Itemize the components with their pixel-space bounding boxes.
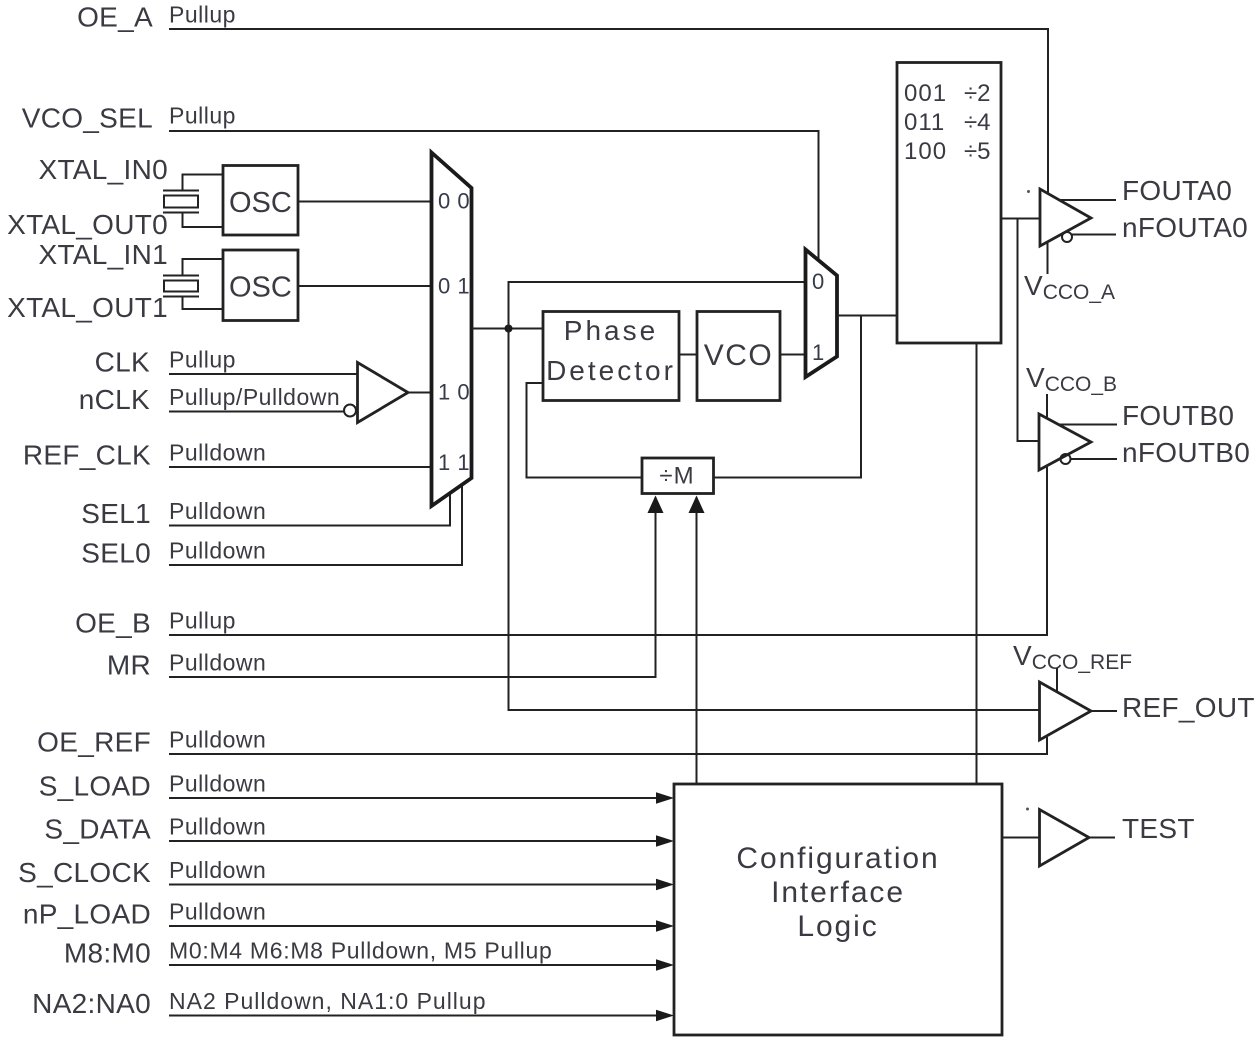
svg-text:OE_A: OE_A	[77, 2, 153, 33]
svg-text:0: 0	[812, 269, 825, 294]
svg-text:XTAL_IN1: XTAL_IN1	[39, 239, 169, 270]
svg-text:Interface: Interface	[771, 876, 905, 909]
wire feedback tap to divider M	[714, 316, 862, 478]
svg-text:XTAL_OUT1: XTAL_OUT1	[7, 292, 168, 323]
wire VCO_SEL to mux select	[169, 131, 819, 261]
svg-text:SEL1: SEL1	[81, 498, 151, 529]
svg-text:Pullup: Pullup	[169, 608, 236, 634]
svg-text:÷5: ÷5	[964, 138, 991, 165]
output divider bank (001 divide2, 011 divide4, 100 divide5)	[897, 63, 1001, 344]
output driver FOUTB	[1039, 414, 1091, 470]
svg-text:Pulldown: Pulldown	[169, 771, 266, 797]
wire OSC1 output to mux input 01	[298, 285, 432, 287]
svg-text:1: 1	[812, 340, 825, 365]
svg-text:VCO_SEL: VCO_SEL	[22, 103, 153, 134]
svg-text:Pullup: Pullup	[169, 103, 236, 129]
svg-text:Phase: Phase	[564, 315, 658, 346]
wire branch to FOUTB driver	[1018, 219, 1040, 442]
arrowhead M control into divider M	[689, 496, 705, 514]
output driver FOUTA	[1040, 189, 1091, 246]
wire NA2:NA0 to configuration logic	[169, 1015, 660, 1017]
svg-text:FOUTB0: FOUTB0	[1122, 400, 1234, 431]
svg-text:REF_CLK: REF_CLK	[23, 440, 151, 471]
wire VCO to mux M2 input 1	[780, 354, 806, 356]
inverting bubble on nCLK input	[344, 405, 356, 417]
svg-text:XTAL_IN0: XTAL_IN0	[39, 154, 169, 185]
wire bypass to mux M2 input 0	[509, 282, 806, 329]
svg-text:NA2:NA0: NA2:NA0	[32, 988, 151, 1019]
wire MR to divider M	[169, 497, 656, 677]
svg-text:Pulldown: Pulldown	[169, 440, 266, 466]
wire nCLK to input buffer bubble	[169, 411, 345, 413]
VCO bypass mux M2	[806, 250, 838, 378]
wire SEL1 to mux select	[169, 494, 450, 526]
inverting bubble nFOUTB0	[1061, 454, 1071, 464]
svg-text:OE_REF: OE_REF	[37, 727, 151, 758]
oscillator OSC1	[223, 250, 298, 321]
wire nFOUTA0 output	[1072, 234, 1117, 236]
wire OSC0 output to mux input 00	[298, 201, 432, 203]
inverting bubble nFOUTA0	[1062, 232, 1072, 242]
wire buffer output to mux input 10	[408, 392, 432, 394]
crystal Y1	[163, 259, 223, 309]
svg-text:001: 001	[904, 80, 947, 107]
svg-text:÷2: ÷2	[964, 80, 991, 107]
svg-text:Configuration: Configuration	[736, 842, 939, 875]
wire divider to configuration logic	[976, 343, 978, 784]
wire divider output to FOUTA driver	[1001, 218, 1040, 220]
wire FOUTA0 output	[1059, 199, 1116, 201]
wire OE_A to FOUTA driver enable	[169, 29, 1048, 193]
svg-text:Detector: Detector	[546, 355, 676, 386]
svg-text:M8:M0: M8:M0	[64, 938, 151, 969]
svg-text:OSC: OSC	[229, 272, 292, 304]
wire reference to REF_OUT driver	[509, 329, 1040, 711]
svg-text:÷M: ÷M	[659, 463, 694, 490]
wire nP_LOAD to configuration logic	[169, 925, 660, 927]
wire FOUTB0 output	[1058, 424, 1117, 426]
svg-text:S_LOAD: S_LOAD	[39, 771, 151, 802]
output driver REF_OUT	[1040, 682, 1092, 740]
wire VCCO_B to FOUTB driver	[1046, 394, 1048, 417]
svg-text:1 1: 1 1	[438, 450, 470, 475]
wire VCCO_REF to REF_OUT driver	[1056, 668, 1058, 693]
svg-text:Pullup: Pullup	[169, 2, 236, 28]
svg-text:REF_OUT: REF_OUT	[1122, 692, 1255, 723]
wire mux M1 output to phase detector	[472, 328, 544, 330]
oscillator OSC0	[223, 166, 298, 236]
svg-text:nCLK: nCLK	[79, 384, 150, 415]
svg-text:XTAL_OUT0: XTAL_OUT0	[7, 209, 168, 240]
phase detector U2	[543, 312, 679, 401]
wire configuration logic to divider M control	[696, 497, 698, 784]
crystal Y0	[163, 175, 223, 228]
wire FOUTA driver to VCCO_A	[1047, 243, 1049, 274]
wire phase detector to VCO	[679, 354, 697, 356]
svg-text:MR: MR	[107, 650, 151, 681]
feedback divider M	[642, 458, 714, 494]
configuration interface logic U4	[674, 784, 1002, 1035]
svg-text:VCO: VCO	[704, 339, 774, 372]
arrowhead MR into divider M	[648, 496, 664, 514]
svg-text:Pulldown: Pulldown	[169, 814, 266, 840]
output driver TEST	[1040, 810, 1090, 867]
wire TEST output	[1089, 837, 1115, 839]
svg-text:Pullup/Pulldown: Pullup/Pulldown	[169, 384, 340, 410]
svg-text:nFOUTB0: nFOUTB0	[1122, 437, 1250, 468]
speck artifact near FOUTA driver	[1027, 190, 1030, 193]
wire configuration logic to TEST driver	[1002, 837, 1040, 839]
wire OE_B to FOUTB driver enable	[169, 467, 1047, 635]
svg-text:0 1: 0 1	[438, 274, 470, 299]
svg-text:÷4: ÷4	[964, 109, 991, 136]
VCO U3	[697, 312, 780, 401]
svg-text:TEST: TEST	[1122, 813, 1195, 844]
svg-text:SEL0: SEL0	[81, 538, 151, 569]
wire OE_REF to REF_OUT driver enable	[169, 737, 1047, 754]
svg-text:Pulldown: Pulldown	[169, 538, 266, 564]
wire S_DATA to configuration logic	[169, 840, 660, 842]
svg-text:Logic: Logic	[797, 910, 878, 943]
wire M8:M0 to configuration logic	[169, 964, 660, 966]
svg-text:1 0: 1 0	[438, 380, 470, 405]
wire mux M2 output to output divider	[837, 315, 897, 317]
svg-text:FOUTA0: FOUTA0	[1122, 175, 1232, 206]
svg-text:nFOUTA0: nFOUTA0	[1122, 212, 1248, 243]
svg-text:Pulldown: Pulldown	[169, 857, 266, 883]
wire REF_OUT output	[1089, 710, 1117, 712]
wire S_CLOCK to configuration logic	[169, 884, 660, 886]
svg-text:nP_LOAD: nP_LOAD	[23, 899, 151, 930]
svg-text:M0:M4 M6:M8 Pulldown, M5 Pullu: M0:M4 M6:M8 Pulldown, M5 Pullup	[169, 938, 552, 964]
svg-text:100: 100	[904, 138, 947, 165]
svg-text:NA2 Pulldown, NA1:0 Pullup: NA2 Pulldown, NA1:0 Pullup	[169, 988, 487, 1014]
input mux M1 (4:1 clock select)	[432, 153, 472, 507]
svg-text:OSC: OSC	[229, 187, 292, 219]
wire CLK to input buffer	[169, 373, 358, 375]
svg-text:011: 011	[904, 109, 945, 136]
svg-text:S_CLOCK: S_CLOCK	[18, 857, 151, 888]
speck artifact near TEST driver	[1026, 808, 1029, 811]
svg-text:Pullup: Pullup	[169, 347, 236, 373]
wire divider M output to phase detector feedback	[527, 383, 643, 478]
junction node reference clock	[505, 325, 513, 333]
svg-text:S_DATA: S_DATA	[44, 814, 151, 845]
svg-text:Pulldown: Pulldown	[169, 650, 266, 676]
svg-text:Pulldown: Pulldown	[169, 498, 266, 524]
wire S_LOAD to configuration logic	[169, 797, 660, 799]
wire nFOUTB0 output	[1071, 458, 1118, 460]
svg-text:0 0: 0 0	[438, 189, 470, 214]
svg-text:OE_B: OE_B	[75, 608, 151, 639]
svg-text:Pulldown: Pulldown	[169, 727, 266, 753]
wire SEL0 to mux select	[169, 485, 462, 565]
wire REF_CLK to mux input 11	[169, 466, 432, 468]
svg-text:Pulldown: Pulldown	[169, 899, 266, 925]
svg-text:CLK: CLK	[95, 347, 150, 378]
input buffer U1 differential clock	[358, 363, 409, 423]
